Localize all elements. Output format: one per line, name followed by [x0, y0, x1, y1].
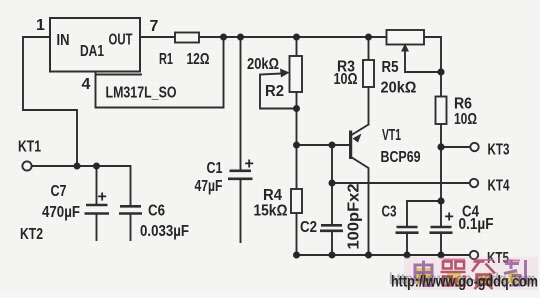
wire R2 wiper return — [260, 74, 297, 109]
svg-text:0.1µF: 0.1µF — [459, 216, 494, 233]
node: R2 wiper bottom — [293, 105, 300, 112]
capacitor C1 47uF plates — [228, 171, 253, 179]
wire C3 branch — [407, 201, 441, 226]
svg-text:C7: C7 — [51, 183, 67, 200]
svg-text:12Ω: 12Ω — [187, 51, 210, 68]
watermark characters — [404, 257, 538, 290]
node: rail C2 — [329, 252, 336, 259]
svg-text:C6: C6 — [148, 203, 165, 220]
svg-text:7: 7 — [150, 18, 159, 35]
wire VT1 emitter diagonal — [352, 125, 369, 136]
wire KT4 line — [332, 182, 470, 184]
svg-text:KT3: KT3 — [488, 142, 510, 159]
wire R5 junction to R6 to KT3 down to C3/C4 node — [441, 72, 471, 201]
node: rail VT1 — [365, 252, 372, 259]
node: C1 top — [237, 34, 244, 41]
wire IN pin 1 to KT1 rail — [23, 37, 77, 166]
wire bottom rail — [297, 254, 471, 256]
wire C7 bottom — [96, 215, 98, 241]
svg-text:+: + — [245, 156, 254, 173]
svg-text:KT2: KT2 — [20, 226, 43, 243]
svg-text:10Ω: 10Ω — [334, 71, 358, 88]
node: R5 wiper junction — [437, 68, 444, 75]
transistor VT1 emitter arrowhead — [353, 134, 362, 143]
wire top rail R1 to R5 — [199, 36, 388, 38]
node: R2 top — [293, 34, 300, 41]
wire R2 bottom to R4 to bottom rail — [296, 92, 298, 255]
svg-text:1: 1 — [36, 17, 45, 34]
svg-text:C3: C3 — [382, 204, 397, 221]
node: rail C3 — [404, 252, 411, 259]
svg-text:IN: IN — [57, 32, 70, 49]
capacitor C3 plates — [396, 227, 419, 233]
terminal KT4 — [470, 179, 478, 187]
wire C2 top — [331, 183, 333, 225]
svg-text:R2: R2 — [265, 83, 284, 100]
resistor R6 10R body — [436, 97, 447, 125]
wire R2 top — [296, 37, 298, 56]
node: base left — [293, 142, 300, 149]
svg-text:4: 4 — [82, 76, 91, 93]
svg-text:http://www.go-gddq.com: http://www.go-gddq.com — [391, 274, 538, 291]
wire VT1 emitter column through R3 — [368, 37, 370, 125]
node: base/C2 — [329, 142, 336, 149]
svg-text:+: + — [445, 209, 454, 226]
resistor R1 12R — [175, 33, 199, 43]
svg-text:20kΩ: 20kΩ — [381, 80, 417, 97]
svg-text:OUT: OUT — [109, 32, 133, 49]
svg-text:R5: R5 — [382, 59, 399, 76]
wire C4 top — [440, 201, 442, 226]
terminal KT5 — [470, 251, 478, 259]
LM317L_SO label box / ADJ pin 4 wire — [96, 37, 224, 108]
potentiometer R5 body — [387, 30, 425, 45]
svg-text:LM317L_SO: LM317L_SO — [106, 85, 177, 102]
svg-text:100pFx2: 100pFx2 — [346, 183, 363, 249]
svg-text:VT1: VT1 — [382, 127, 401, 144]
node: KT4 branch — [329, 180, 336, 187]
resistor R3 10R body — [363, 60, 374, 87]
svg-text:KT1: KT1 — [18, 139, 41, 156]
wire C3 bottom — [406, 234, 408, 256]
node: R1/ADJ junction — [220, 34, 227, 41]
svg-text:0.033µF: 0.033µF — [140, 223, 189, 240]
capacitor C7 470uF plates — [85, 205, 110, 214]
svg-text:BCP69: BCP69 — [381, 149, 421, 166]
svg-text:C1: C1 — [207, 160, 223, 177]
node: rail R4 — [293, 252, 300, 259]
svg-text:R4: R4 — [263, 187, 282, 204]
svg-text:47µF: 47µF — [195, 178, 223, 195]
capacitor C2 plates — [320, 225, 343, 231]
terminal KT3 — [470, 143, 478, 151]
capacitor C6 0.033uF plates — [119, 206, 142, 213]
wire C2 bottom — [331, 232, 333, 256]
resistor R4 15k body — [291, 189, 302, 213]
node: rail C4 — [438, 252, 445, 259]
wire VT1 base — [297, 144, 350, 146]
node: R3/VT1 top — [365, 34, 372, 41]
svg-text:R6: R6 — [454, 96, 472, 113]
svg-text:C2: C2 — [300, 219, 317, 236]
wire C7 top — [96, 166, 98, 204]
capacitor C4 0.1uF plates — [430, 227, 453, 233]
svg-text:R1: R1 — [159, 51, 173, 68]
wire C4 bottom — [440, 234, 442, 256]
node: C3/C4 branch — [437, 197, 444, 204]
terminal KT1 — [22, 161, 31, 170]
node: KT3 branch — [437, 143, 444, 150]
potentiometer R2 wiper arrowhead — [280, 69, 290, 78]
node: KT1 rail / C7 — [93, 163, 100, 170]
svg-text:10Ω: 10Ω — [454, 111, 477, 128]
node: KT1 rail / IN wire — [74, 163, 81, 170]
wire C1 column — [240, 37, 242, 242]
wire R5 right terminal down — [424, 37, 442, 72]
wire KT1 rail — [32, 166, 131, 206]
svg-text:15kΩ: 15kΩ — [254, 203, 288, 220]
transistor VT1 base bar — [349, 131, 352, 160]
wire VT1 collector diagonal and down — [351, 157, 369, 255]
wire OUT pin 7 to R1 — [140, 36, 175, 38]
regulator DA1 box — [50, 18, 140, 72]
svg-text:20kΩ: 20kΩ — [247, 56, 279, 73]
wire C6 bottom — [130, 215, 132, 241]
wire R5 wiper — [405, 46, 441, 73]
svg-text:DA1: DA1 — [80, 43, 104, 60]
wire base node down to KT4 node — [331, 145, 333, 183]
potentiometer R2 body — [290, 56, 303, 92]
potentiometer R5 wiper arrowhead — [401, 44, 409, 52]
svg-text:470µF: 470µF — [42, 204, 80, 221]
svg-text:+: + — [98, 189, 107, 206]
svg-text:KT4: KT4 — [488, 178, 510, 195]
